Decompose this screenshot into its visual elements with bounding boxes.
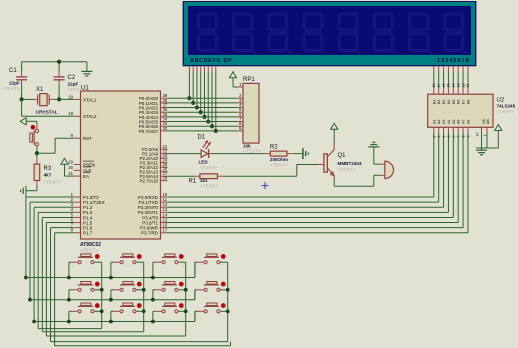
svg-text:18: 18 [68, 111, 73, 116]
svg-text:A7: A7 [462, 120, 466, 124]
svg-text:2: 2 [432, 136, 436, 138]
svg-text:LED: LED [199, 159, 209, 164]
svg-text:30: 30 [68, 165, 73, 170]
svg-text:R1: R1 [189, 178, 197, 184]
svg-text:28: 28 [163, 176, 168, 181]
svg-text:<TEXT>: <TEXT> [44, 180, 62, 186]
svg-text:B1: B1 [432, 100, 436, 104]
svg-text:C1: C1 [9, 68, 17, 74]
svg-text:X1: X1 [36, 87, 44, 93]
svg-text:9: 9 [466, 136, 470, 138]
svg-text:18: 18 [432, 84, 436, 88]
svg-text:A5: A5 [452, 120, 456, 124]
svg-text:29: 29 [68, 159, 73, 164]
svg-text:B8: B8 [466, 100, 470, 104]
svg-text:P1.7: P1.7 [83, 231, 93, 236]
svg-text:AT89C52: AT89C52 [80, 242, 101, 248]
svg-text:4: 4 [442, 136, 446, 138]
svg-text:19: 19 [68, 94, 73, 99]
svg-text:12345678: 12345678 [437, 58, 470, 64]
svg-text:XTAL2: XTAL2 [83, 114, 97, 119]
svg-text:5: 5 [447, 136, 451, 138]
svg-text:6: 6 [452, 136, 456, 138]
svg-text:P3.7/RD: P3.7/RD [141, 231, 159, 236]
svg-text:1k1: 1k1 [200, 178, 208, 183]
svg-text:A3: A3 [442, 120, 446, 124]
svg-text:74LS245: 74LS245 [497, 104, 516, 109]
svg-text:16: 16 [442, 84, 446, 88]
svg-text:17: 17 [163, 228, 168, 233]
svg-text:200Ohm: 200Ohm [270, 157, 288, 162]
svg-text:B4: B4 [447, 100, 451, 104]
svg-text:<TEXT>: <TEXT> [2, 86, 20, 92]
svg-text:A4: A4 [447, 120, 451, 124]
svg-text:AB: AB [486, 119, 490, 124]
svg-text:8: 8 [462, 136, 466, 138]
svg-text:10k: 10k [243, 144, 251, 149]
svg-text:31: 31 [68, 171, 73, 176]
svg-text:B7: B7 [462, 100, 466, 104]
svg-text:D1: D1 [198, 135, 206, 141]
svg-text:R3: R3 [44, 166, 52, 172]
svg-text:R2: R2 [270, 145, 278, 151]
svg-text:B5: B5 [452, 100, 456, 104]
svg-text:13: 13 [456, 84, 460, 88]
svg-text:P0.7/AD7: P0.7/AD7 [139, 129, 159, 134]
svg-text:19: 19 [475, 133, 479, 137]
svg-text:22pF: 22pF [68, 82, 79, 87]
svg-text:B2: B2 [437, 100, 441, 104]
svg-text:XTAL1: XTAL1 [83, 97, 97, 102]
svg-text:12: 12 [461, 84, 465, 88]
svg-text:7: 7 [457, 136, 461, 138]
svg-text:17: 17 [437, 84, 441, 88]
svg-text:B3: B3 [442, 100, 446, 104]
svg-text:Q1: Q1 [338, 153, 347, 159]
svg-text:<TEXT>: <TEXT> [270, 163, 288, 169]
svg-text:<TEXT>: <TEXT> [338, 167, 356, 173]
svg-text:MMBT2404: MMBT2404 [338, 161, 362, 166]
svg-text:15: 15 [447, 84, 451, 88]
svg-text:22pF: 22pF [9, 80, 20, 85]
svg-text:32: 32 [163, 126, 168, 131]
svg-text:<TEXT>: <TEXT> [200, 165, 218, 171]
svg-text:14: 14 [452, 84, 456, 88]
svg-text:A1: A1 [432, 120, 436, 124]
svg-text:<TEXT>: <TEXT> [68, 87, 86, 93]
svg-text:RST: RST [83, 136, 92, 141]
svg-text:<TEXT>: <TEXT> [200, 183, 218, 189]
svg-text:A6: A6 [457, 120, 461, 124]
svg-text:EA: EA [83, 174, 89, 179]
svg-text:ABCDEFG DP: ABCDEFG DP [190, 58, 232, 64]
svg-text:P2.7/A15: P2.7/A15 [139, 179, 158, 184]
svg-text:11: 11 [466, 84, 470, 88]
svg-text:1: 1 [483, 135, 487, 137]
svg-text:<TEXT>: <TEXT> [497, 109, 515, 115]
svg-text:A8: A8 [466, 120, 470, 124]
svg-text:3: 3 [437, 136, 441, 138]
svg-text:RP1: RP1 [243, 77, 255, 83]
svg-text:C2: C2 [68, 75, 76, 81]
svg-text:B6: B6 [457, 100, 461, 104]
svg-text:A2: A2 [437, 120, 441, 124]
svg-text:4k7: 4k7 [44, 173, 52, 178]
